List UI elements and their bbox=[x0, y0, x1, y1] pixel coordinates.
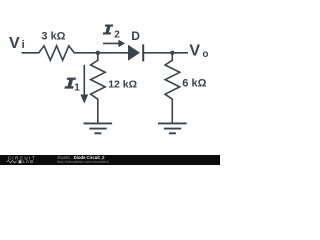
svg-text:http://circuitlab.com/c/uxebb4: http://circuitlab.com/c/uxebb4 bbox=[57, 159, 110, 164]
svg-text:2: 2 bbox=[114, 29, 120, 40]
svg-text:D: D bbox=[131, 29, 140, 43]
svg-text:o: o bbox=[202, 49, 208, 60]
svg-text:LAB: LAB bbox=[23, 159, 35, 164]
svg-text:V: V bbox=[9, 35, 20, 52]
svg-text:i: i bbox=[22, 39, 25, 51]
svg-text:12 kΩ: 12 kΩ bbox=[108, 78, 137, 90]
svg-text:V: V bbox=[189, 43, 200, 60]
svg-text:6 kΩ: 6 kΩ bbox=[182, 78, 206, 90]
svg-text:1: 1 bbox=[74, 83, 80, 94]
svg-text:3 kΩ: 3 kΩ bbox=[41, 31, 65, 43]
